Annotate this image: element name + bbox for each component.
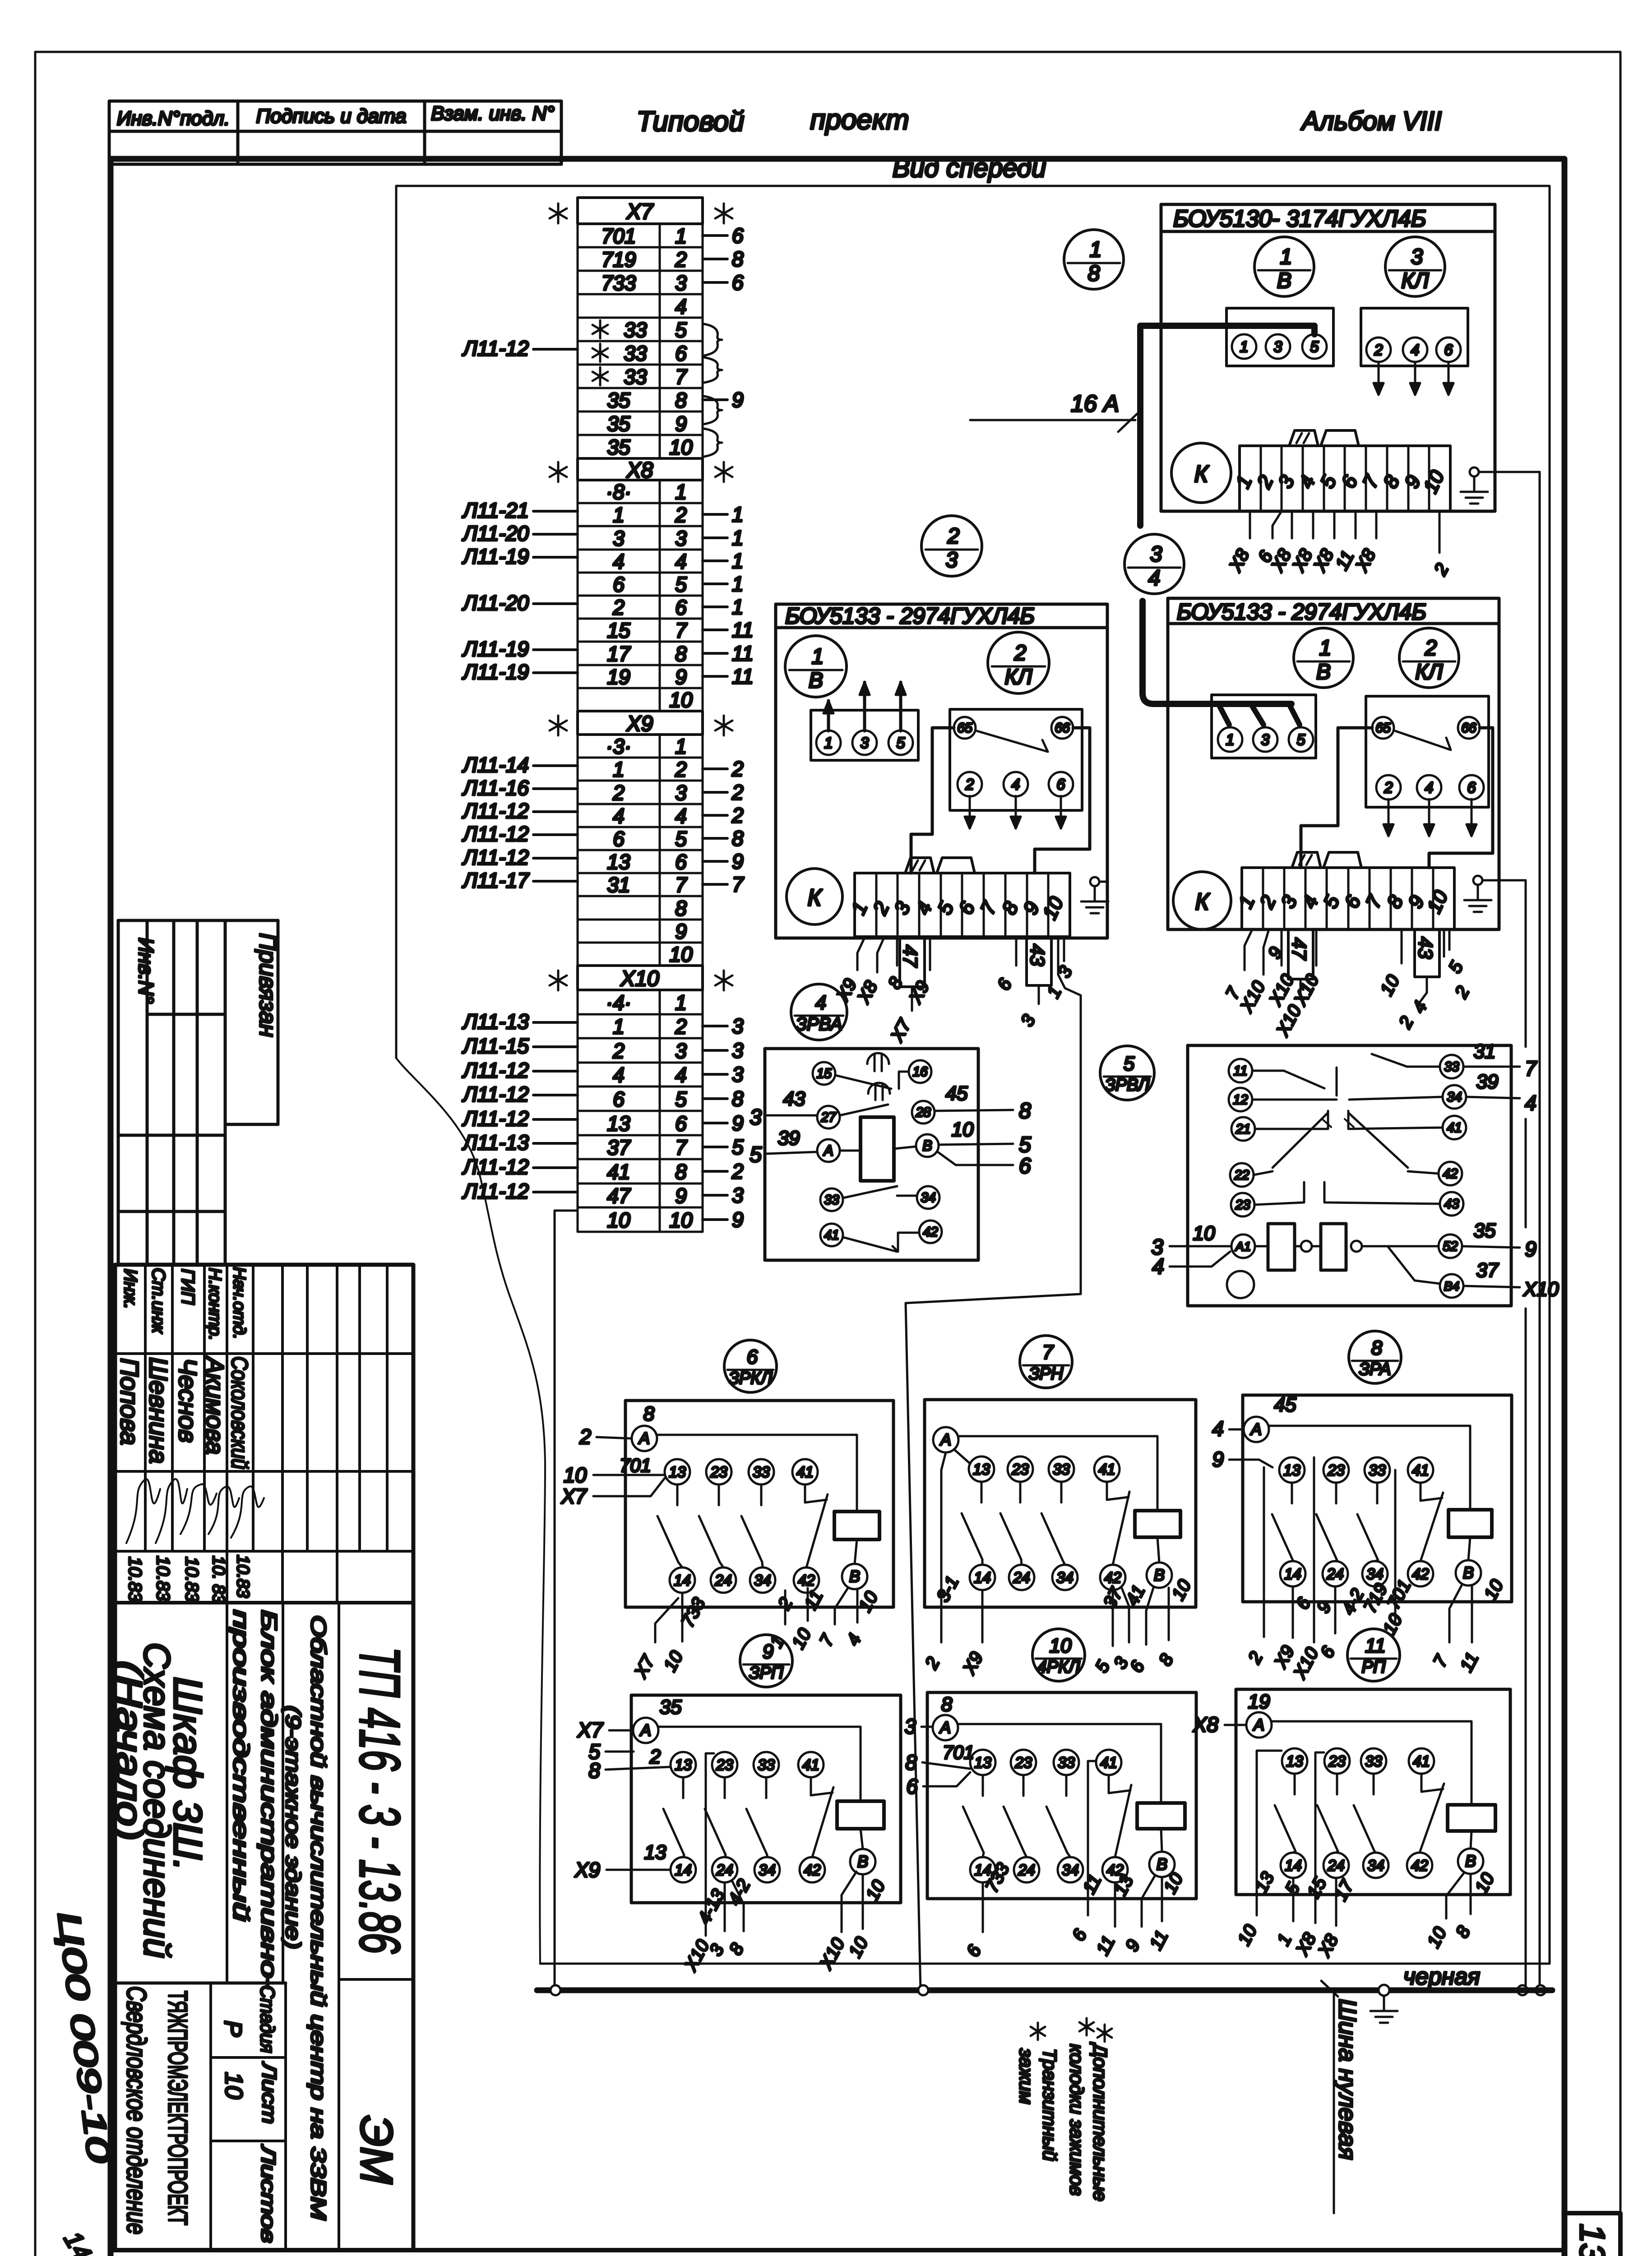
U3 winding box В xyxy=(1212,695,1316,758)
svg-text:16 А: 16 А xyxy=(1071,391,1119,417)
wire U3 ground to bus xyxy=(1482,879,1526,882)
ЗРП coil xyxy=(837,1801,884,1829)
4РКЛ contact terminal 33 xyxy=(1054,1750,1079,1775)
svg-text:4: 4 xyxy=(1411,342,1420,359)
K5 terminal A1 xyxy=(1231,1234,1255,1258)
svg-text:9: 9 xyxy=(675,1184,687,1207)
U1 strip pin10 wire to 2 xyxy=(1439,511,1441,553)
svg-text:3: 3 xyxy=(732,1039,744,1062)
wire U2 terminal 65 to strip xyxy=(911,728,954,873)
U2 arrows up from terminals 1,3,5 xyxy=(827,701,830,731)
ЗРП contact terminal 14 xyxy=(671,1857,696,1882)
svg-text:К: К xyxy=(1194,461,1210,487)
svg-text:8: 8 xyxy=(675,388,687,412)
svg-text:3: 3 xyxy=(1411,245,1423,269)
X7 bracket rows 5-6 xyxy=(704,324,722,356)
svg-text:15: 15 xyxy=(607,619,630,642)
ЗРА wire A to coil xyxy=(1269,1426,1470,1510)
svg-text:9: 9 xyxy=(732,388,744,411)
svg-text:33: 33 xyxy=(1365,1753,1382,1770)
svg-text:10: 10 xyxy=(952,1119,974,1141)
X9 row 9 xyxy=(578,920,703,943)
wire K5 33 out to 7 xyxy=(1463,1066,1520,1068)
ЗРП contact terminal 24 xyxy=(712,1857,737,1882)
РП contact terminal 41 xyxy=(1409,1748,1434,1774)
U2 terminal 2 xyxy=(958,772,982,796)
wire K5 34 out to 4 xyxy=(1466,1097,1520,1098)
svg-text:42: 42 xyxy=(1104,1569,1121,1586)
U3 winding box КЛ xyxy=(1366,696,1489,807)
svg-text:1: 1 xyxy=(675,480,687,504)
svg-text:43: 43 xyxy=(1026,944,1048,966)
svg-text:Л11-19: Л11-19 xyxy=(462,545,529,568)
wire K5 B4 out to Х10 xyxy=(1463,1286,1520,1287)
svg-text:41: 41 xyxy=(1447,1120,1462,1135)
svg-text:37: 37 xyxy=(607,1136,631,1159)
svg-text:В: В xyxy=(922,1137,932,1154)
svg-text:Соколовский: Соколовский xyxy=(227,1356,252,1469)
U3 terminal strip xyxy=(1242,868,1454,929)
K4 terminal 34 xyxy=(917,1186,939,1209)
wire U3 terminal 65 to strip xyxy=(1301,728,1372,868)
svg-text:65: 65 xyxy=(1375,721,1391,735)
РП contact terminal 13 xyxy=(1282,1748,1307,1774)
svg-text:33: 33 xyxy=(1444,1059,1459,1074)
K5 terminal 42 xyxy=(1439,1162,1462,1185)
K4 terminal A xyxy=(817,1139,840,1162)
svg-text:5: 5 xyxy=(732,1135,744,1159)
svg-text:7: 7 xyxy=(1042,1341,1054,1364)
svg-text:КЛ: КЛ xyxy=(1415,660,1443,684)
4РКЛ contact terminal 34 xyxy=(1058,1857,1083,1882)
svg-text:13: 13 xyxy=(669,1464,686,1481)
svg-text:В: В xyxy=(857,1852,868,1871)
svg-text:42: 42 xyxy=(1443,1166,1458,1181)
svg-text:13: 13 xyxy=(973,1461,990,1478)
svg-text:12: 12 xyxy=(1233,1092,1248,1107)
svg-text:34: 34 xyxy=(759,1862,776,1879)
РП coil terminal A xyxy=(1246,1712,1272,1738)
svg-text:33: 33 xyxy=(624,318,647,342)
svg-text:701: 701 xyxy=(943,1742,974,1763)
callout circle 3/4 xyxy=(1124,534,1184,594)
svg-text:ЗРКЛ: ЗРКЛ xyxy=(728,1369,773,1388)
svg-text:1: 1 xyxy=(613,758,625,781)
K5 terminal 41 xyxy=(1443,1116,1466,1139)
K5 timer chain xyxy=(1268,1224,1295,1270)
relay РП box xyxy=(1236,1689,1510,1895)
X9 pin 6 wire stub xyxy=(703,860,727,863)
X7 pin 8 wire stub xyxy=(703,398,727,401)
X8 row 4 xyxy=(578,550,703,573)
X8 row 3 xyxy=(578,526,703,550)
svg-text:13: 13 xyxy=(675,1757,692,1774)
K5 terminal 21 xyxy=(1231,1117,1255,1141)
svg-text:13: 13 xyxy=(1283,1462,1300,1479)
svg-text:Л11-14: Л11-14 xyxy=(462,753,529,777)
ЗРКЛ contact blade 23-24 xyxy=(718,1484,720,1505)
svg-text:10: 10 xyxy=(607,1208,630,1232)
ЗРА coil terminal A xyxy=(1244,1417,1269,1442)
svg-text:Транзитный: Транзитный xyxy=(1039,2048,1060,2161)
bus vertical segment c xyxy=(1525,1308,1527,1985)
svg-text:2: 2 xyxy=(675,503,687,527)
U2 terminal strip xyxy=(855,873,1070,937)
U1 strip lower stubs and labels xyxy=(1249,511,1251,538)
callout circle 2/3 xyxy=(921,516,982,576)
svg-text:10: 10 xyxy=(669,1208,693,1232)
X10 pin 8 wire stub xyxy=(703,1170,727,1173)
X8 row 6 xyxy=(578,596,703,619)
K4 terminal B xyxy=(916,1134,939,1157)
svg-text:А: А xyxy=(638,1429,650,1447)
svg-text:А: А xyxy=(823,1142,833,1159)
relay ЗРА box xyxy=(1243,1395,1512,1602)
X10 pin 10 wire stub xyxy=(703,1218,727,1221)
callout circle 7/ЗРН xyxy=(1020,1336,1072,1388)
U2 winding box КЛ xyxy=(950,709,1082,810)
bus name line xyxy=(1333,1993,1335,2213)
ЗРП contact blade 23-24 xyxy=(724,1777,726,1798)
svg-text:10: 10 xyxy=(669,943,693,966)
frame bottom inner line xyxy=(111,2248,1564,2252)
svg-text:ЭМ: ЭМ xyxy=(351,2115,402,2184)
svg-text:Блок административно-: Блок административно- xyxy=(257,1610,281,1989)
svg-text:Л11-20: Л11-20 xyxy=(462,591,529,615)
svg-text:4РКЛ: 4РКЛ xyxy=(1037,1658,1081,1677)
K5 terminal 11 xyxy=(1229,1059,1252,1082)
svg-text:Дополнительные: Дополнительные xyxy=(1090,2042,1111,2201)
svg-text:34: 34 xyxy=(1367,1857,1384,1874)
РП internal vertical wires xyxy=(1257,1751,1282,1915)
K5 terminal 23 xyxy=(1231,1193,1254,1216)
svg-text:БОУ5133 - 2974ГУХЛ4Б: БОУ5133 - 2974ГУХЛ4Б xyxy=(785,603,1035,629)
svg-text:Лист: Лист xyxy=(258,2061,280,2124)
svg-text:(9-этажное здание): (9-этажное здание) xyxy=(282,1706,305,1949)
svg-text:2: 2 xyxy=(675,758,687,781)
svg-text:23: 23 xyxy=(1327,1462,1345,1479)
X10 pin 7 wire stub xyxy=(703,1146,727,1148)
4РКЛ break contact 41-42 xyxy=(1108,1775,1110,1793)
svg-text:Х9: Х9 xyxy=(574,1858,600,1882)
svg-text:13: 13 xyxy=(607,850,630,874)
circle 2/КЛ of U3 xyxy=(1399,628,1459,688)
svg-text:4: 4 xyxy=(675,295,687,318)
svg-text:10: 10 xyxy=(1050,1635,1072,1657)
svg-text:14: 14 xyxy=(1285,1857,1302,1874)
U2 strip ground xyxy=(1090,877,1099,886)
K4 coil xyxy=(861,1117,894,1181)
svg-text:2: 2 xyxy=(731,1160,744,1183)
ЗРКЛ contact terminal 14 xyxy=(670,1567,695,1593)
svg-text:23: 23 xyxy=(1235,1197,1250,1212)
K4 terminal 42 xyxy=(919,1220,942,1243)
svg-text:·8·: ·8· xyxy=(606,480,631,504)
svg-text:5: 5 xyxy=(1310,338,1319,356)
ЗРП contact terminal 23 xyxy=(712,1752,737,1777)
svg-text:БОУ5130- 3174ГУХЛ4Б: БОУ5130- 3174ГУХЛ4Б xyxy=(1173,206,1426,232)
ЗРН contact terminal 14 xyxy=(970,1565,995,1590)
X8 row 9 xyxy=(578,665,703,688)
svg-text:33: 33 xyxy=(624,365,647,388)
U3 arrows from 2,4,6 xyxy=(1388,799,1390,836)
U1 winding box В xyxy=(1226,308,1333,366)
svg-text:23: 23 xyxy=(1328,1753,1346,1770)
svg-text:Х7: Х7 xyxy=(577,1718,604,1742)
ЗРН contact blade 13-14 xyxy=(981,1482,983,1502)
X7 row 1 xyxy=(578,224,703,247)
wire U2 terminal 66 to strip xyxy=(1035,728,1090,873)
ЗРКЛ wire A to coil xyxy=(657,1435,857,1512)
svg-text:ТЯЖПРОМЭЛЕКТРОПРОЕКТ: ТЯЖПРОМЭЛЕКТРОПРОЕКТ xyxy=(163,1991,192,2225)
4РКЛ contact terminal 14 xyxy=(970,1857,995,1882)
svg-text:5: 5 xyxy=(897,735,905,752)
bus ground symbol xyxy=(1379,1985,1389,1996)
svg-text:X8: X8 xyxy=(626,458,653,482)
ЗРКЛ contact terminal 33 xyxy=(749,1459,774,1484)
svg-text:10.83: 10.83 xyxy=(153,1556,173,1601)
svg-text:ЗРН: ЗРН xyxy=(1029,1364,1064,1383)
svg-text:2: 2 xyxy=(579,1425,591,1448)
svg-text:6: 6 xyxy=(1019,1154,1031,1178)
svg-text:24: 24 xyxy=(716,1862,733,1879)
X10 row 8 xyxy=(578,1159,703,1183)
РП break contact 41-42 xyxy=(1421,1774,1423,1792)
svg-text:·4·: ·4· xyxy=(606,991,631,1014)
ЗРП wire A to coil xyxy=(658,1727,861,1801)
X9 pin 3 wire stub xyxy=(703,791,727,794)
4РКЛ coil xyxy=(1137,1803,1185,1829)
svg-text:А: А xyxy=(1250,1420,1262,1438)
svg-text:5: 5 xyxy=(675,573,687,596)
svg-text:8: 8 xyxy=(588,1759,600,1782)
K5 contact 22-42 xyxy=(1254,1171,1273,1175)
U1 terminal 3 xyxy=(1266,334,1290,359)
svg-text:колодки зажимов: колодки зажимов xyxy=(1066,2044,1087,2196)
svg-text:2: 2 xyxy=(731,781,744,804)
svg-text:Л11-19: Л11-19 xyxy=(462,637,529,661)
ЗРН contact terminal 13 xyxy=(969,1456,994,1482)
svg-text:4: 4 xyxy=(1012,776,1020,793)
svg-text:34: 34 xyxy=(754,1572,771,1589)
ЗРН contact blade 23-24 xyxy=(1019,1482,1022,1502)
ЗРН contact terminal 33 xyxy=(1049,1456,1074,1482)
U3 strip pin3 wire 47 xyxy=(1288,929,1313,979)
svg-text:33: 33 xyxy=(1053,1461,1070,1478)
ЗРКЛ coil terminal B xyxy=(842,1564,867,1589)
svg-text:Шевнина: Шевнина xyxy=(144,1357,173,1464)
svg-text:6: 6 xyxy=(732,224,744,247)
svg-text:Свердловское отделение: Свердловское отделение xyxy=(121,1986,152,2234)
ЗРА contact terminal 23 xyxy=(1323,1457,1349,1483)
svg-text:Листов: Листов xyxy=(257,2144,279,2243)
svg-text:13: 13 xyxy=(974,1754,991,1771)
X8 pin 3 wire stub xyxy=(703,536,727,539)
U2 winding box В xyxy=(811,710,918,760)
X8 row 5 xyxy=(578,573,703,596)
ЗРКЛ contact terminal 23 xyxy=(706,1459,731,1484)
svg-text:3: 3 xyxy=(1261,731,1270,749)
K4 terminal 27 xyxy=(817,1106,840,1128)
svg-text:8: 8 xyxy=(1019,1099,1031,1123)
svg-text:41: 41 xyxy=(796,1464,814,1481)
svg-text:41: 41 xyxy=(1412,1462,1429,1479)
svg-text:24: 24 xyxy=(1013,1569,1030,1586)
svg-text:В: В xyxy=(849,1567,860,1586)
РП contact terminal 23 xyxy=(1324,1748,1350,1774)
U3 terminal 66 xyxy=(1458,717,1480,739)
svg-text:1: 1 xyxy=(675,991,687,1014)
svg-text:11: 11 xyxy=(1365,1635,1386,1657)
svg-text:Л11-12: Л11-12 xyxy=(462,1179,529,1203)
svg-text:5: 5 xyxy=(675,1087,687,1111)
svg-text:8: 8 xyxy=(1088,262,1100,286)
U3 strip pin4 wire Х10 xyxy=(1315,929,1318,966)
svg-text:8: 8 xyxy=(732,1087,744,1110)
ЗРКЛ contact terminal 24 xyxy=(711,1567,736,1593)
X8 pin 9 wire stub xyxy=(703,675,727,678)
svg-text:6: 6 xyxy=(675,596,687,619)
U1 contact group K xyxy=(1171,443,1231,503)
X10 asterisk left xyxy=(557,971,560,990)
device U1 БОУ5130-3174ГУХЛ4Б xyxy=(1161,204,1495,511)
svg-text:10.83: 10.83 xyxy=(125,1557,145,1602)
svg-text:1: 1 xyxy=(732,572,744,596)
U3 contact group K xyxy=(1173,872,1231,929)
K5 contact 21-41 crossover xyxy=(1255,1111,1328,1129)
svg-text:19: 19 xyxy=(607,665,630,689)
K5 terminal 22 xyxy=(1230,1163,1254,1187)
X10 row 2 xyxy=(578,1014,703,1038)
wire U1 ground to right bus xyxy=(1479,471,1540,473)
ЗРН contact terminal 41 xyxy=(1094,1456,1120,1482)
svg-text:65: 65 xyxy=(957,721,972,735)
ЗРП contact blade 33-34 xyxy=(765,1777,768,1798)
4РКЛ contact terminal 23 xyxy=(1011,1750,1036,1775)
svg-text:10.83: 10.83 xyxy=(182,1557,202,1602)
ЗРН coil xyxy=(1135,1511,1180,1537)
svg-text:52: 52 xyxy=(1443,1239,1458,1254)
svg-text:33: 33 xyxy=(753,1464,770,1481)
svg-text:7: 7 xyxy=(675,873,687,897)
callout circle 5/ЗРВЛ xyxy=(1100,1046,1154,1100)
svg-text:42: 42 xyxy=(1412,1566,1429,1583)
4РКЛ coil terminal A xyxy=(933,1715,958,1740)
svg-text:Х8: Х8 xyxy=(1193,1713,1219,1736)
svg-text:11: 11 xyxy=(732,642,754,665)
svg-text:3: 3 xyxy=(1274,338,1282,356)
svg-text:1: 1 xyxy=(675,224,687,248)
K5 terminal 34 xyxy=(1443,1085,1466,1109)
X9 pin 7 wire stub xyxy=(703,883,727,886)
svg-text:3: 3 xyxy=(732,1014,744,1038)
svg-text:33: 33 xyxy=(758,1757,775,1774)
svg-text:15: 15 xyxy=(816,1066,832,1081)
svg-text:Привязан: Привязан xyxy=(255,933,281,1037)
relay ЗРП box xyxy=(631,1695,901,1903)
svg-text:6: 6 xyxy=(675,342,687,365)
K5 terminal 52 xyxy=(1439,1234,1462,1258)
bus vertical segment b xyxy=(1525,1119,1527,1227)
svg-text:РП: РП xyxy=(1362,1658,1386,1677)
X9 pin 4 wire stub xyxy=(703,814,727,817)
svg-text:А: А xyxy=(939,1430,951,1449)
X10 pin 5 wire stub xyxy=(703,1097,727,1100)
bus node X10 wire xyxy=(551,1985,560,1995)
svg-text:24: 24 xyxy=(1326,1566,1344,1583)
stamp signatures xyxy=(126,1479,160,1543)
ЗРКЛ coil terminal A xyxy=(632,1426,657,1451)
РП coil xyxy=(1448,1805,1495,1831)
X10 pin 6 wire stub xyxy=(703,1122,727,1124)
ЗРП contact terminal 13 xyxy=(671,1752,696,1777)
svg-text:ЗРА: ЗРА xyxy=(1359,1360,1391,1379)
svg-text:Инв.N°: Инв.N° xyxy=(134,938,158,1004)
svg-text:2: 2 xyxy=(1014,641,1027,665)
zero bus Шина нулевая xyxy=(537,1988,1552,1993)
svg-text:3: 3 xyxy=(675,781,687,804)
4РКЛ contact terminal 41 xyxy=(1096,1750,1121,1775)
U2 strip lower wires and labels xyxy=(857,937,865,970)
svg-text:16: 16 xyxy=(912,1064,928,1079)
thick supply wire from U1 terminal 5 xyxy=(1140,326,1314,526)
4РКЛ contact blade 13-14 xyxy=(982,1775,984,1796)
U2 terminal 4 xyxy=(1004,772,1028,796)
svg-text:КЛ: КЛ xyxy=(1401,269,1429,293)
РП contact terminal 42 xyxy=(1407,1853,1432,1878)
ЗРА contact blade 33-34 xyxy=(1376,1483,1379,1503)
svg-text:Л11-20: Л11-20 xyxy=(462,522,529,545)
terminal block X10 xyxy=(578,966,703,990)
K5 contact 11-12 xyxy=(1252,1070,1284,1072)
svg-text:66: 66 xyxy=(1055,721,1070,735)
svg-text:14: 14 xyxy=(674,1572,691,1589)
svg-text:8: 8 xyxy=(905,1751,917,1774)
relay ЗРКЛ box xyxy=(625,1401,893,1607)
svg-text:3: 3 xyxy=(613,527,625,550)
svg-text:42: 42 xyxy=(798,1572,815,1589)
svg-text:14: 14 xyxy=(974,1569,991,1586)
X8 row 2 xyxy=(578,503,703,526)
svg-text:39: 39 xyxy=(1476,1071,1499,1093)
svg-text:9: 9 xyxy=(763,1641,773,1663)
upper stamp table Инв/Привязан xyxy=(117,920,120,1263)
X8 pin 2 wire stub xyxy=(703,513,727,516)
ЗРП internal vertical from 23 xyxy=(706,1753,714,1936)
svg-text:Л11-12: Л11-12 xyxy=(462,799,529,823)
svg-text:2: 2 xyxy=(947,524,960,548)
svg-text:23: 23 xyxy=(1011,1461,1029,1478)
U2 contact group K xyxy=(787,869,842,925)
svg-text:35: 35 xyxy=(607,435,630,459)
callout circle 9/ЗРП xyxy=(740,1635,792,1687)
ЗРН coil terminal A xyxy=(933,1427,958,1452)
РП contact terminal 24 xyxy=(1323,1853,1349,1878)
svg-text:6: 6 xyxy=(1057,776,1065,793)
svg-text:43: 43 xyxy=(1414,937,1436,959)
X7 asterisk left xyxy=(557,203,560,223)
ЗРН contact blade 33-34 xyxy=(1060,1482,1063,1502)
U1 arrows from 2,4,6 xyxy=(1378,362,1380,395)
bus vertical from U3 ground segment a xyxy=(1525,880,1527,1047)
svg-text:10: 10 xyxy=(220,2072,247,2099)
svg-text:39: 39 xyxy=(778,1127,800,1149)
svg-text:8: 8 xyxy=(941,1693,953,1715)
svg-text:6: 6 xyxy=(675,850,687,874)
svg-text:4: 4 xyxy=(675,1063,687,1086)
U1 terminal 4 xyxy=(1403,337,1427,362)
X8 row 7 xyxy=(578,619,703,642)
